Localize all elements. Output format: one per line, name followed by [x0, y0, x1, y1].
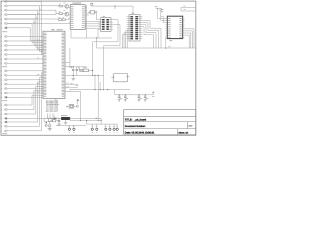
wire net D1 pin to MCU — [7, 95, 43, 105]
+5V label ladder — [152, 95, 154, 98]
wire comb drop 1 — [46, 113, 48, 118]
wire SV2 loop 2 — [104, 24, 121, 89]
wire IC3 left down to bus — [165, 37, 167, 48]
resistor R2 label — [59, 10, 60, 13]
wire net to frame 2 — [181, 10, 195, 12]
bridge B1 — [49, 119, 53, 122]
IC3 body — [167, 16, 182, 38]
wire SV2 loop 1 — [93, 20, 119, 76]
voltage regulator IC4 body — [61, 117, 70, 120]
left connector pin 20 — [4, 92, 5, 94]
left connector pin 7 label — [1, 27, 2, 30]
pad S1 out — [77, 105, 79, 107]
MCU IC2 internal pin names right column — [62, 32, 65, 35]
wire jog — [55, 13, 57, 16]
capacitor C4 — [124, 95, 126, 96]
left connector pin 1 — [4, 1, 5, 3]
junction C6 — [145, 94, 146, 95]
left connector pin 17 label — [1, 79, 2, 82]
header SV2 outline — [101, 18, 112, 32]
left connector pin 25 label — [1, 117, 2, 120]
wire net D4 pin to MCU — [7, 82, 43, 122]
wires MCU bottom pin comb — [46, 100, 48, 110]
junction bus IC3 — [165, 47, 166, 48]
MCU IC2 refdes — [52, 29, 55, 30]
left connector pin 14 — [4, 63, 5, 65]
net labels on comb — [46, 101, 48, 104]
wire net B7 pin to MCU — [7, 62, 43, 64]
left connector pin 10 label — [1, 44, 2, 47]
wire K1 right pin — [128, 76, 130, 78]
wire fuse in — [50, 120, 53, 122]
left connector pin 12 — [4, 54, 5, 56]
left connector pin 2 — [4, 5, 5, 7]
header SV2 pin stubs — [99, 19, 103, 21]
left connector pin 11 label — [1, 49, 2, 52]
MCU IC2 left pin stubs — [42, 53, 43, 55]
left connector pin 15 — [4, 70, 5, 72]
junction cluster a — [53, 118, 54, 119]
wire net C4 pin to MCU — [7, 83, 43, 85]
MCU IC2 value — [57, 28, 63, 31]
wire IC1 bottom to bus — [70, 30, 72, 39]
left connector pin 13 label — [1, 58, 2, 61]
junction R5 loop1 — [92, 70, 93, 71]
wire bridge to D1 — [52, 117, 53, 119]
junction node — [71, 66, 72, 67]
wire SV1 right loop 2 — [142, 25, 156, 48]
left connector pin 22 label — [1, 104, 2, 107]
wire net A1 pin to MCU — [7, 2, 43, 54]
resistor R5 — [83, 69, 88, 72]
wire pad stub — [91, 5, 93, 8]
supply symbol +5V at ladder — [151, 94, 153, 96]
header SV1 label — [132, 12, 135, 15]
wire drop x86.7 — [86, 121, 88, 125]
junction x98 rail — [98, 120, 99, 121]
pad P2 label — [77, 102, 78, 105]
left connector pin 3 — [4, 9, 5, 11]
junction D1 in — [50, 118, 51, 119]
wire net B4 pin to MCU — [7, 49, 43, 51]
wire vertical from bus to MISO — [69, 48, 71, 67]
wire net to cluster — [7, 14, 56, 16]
junction rail y89.6 c — [94, 89, 95, 90]
ground symbol below C1 C2 — [71, 78, 75, 80]
left connector pin 1 label — [1, 0, 2, 3]
wire cluster left drop — [43, 118, 45, 121]
left connector pin 9 — [4, 40, 5, 42]
wire net C7 pin to MCU — [7, 96, 43, 98]
junction MISO — [69, 66, 70, 67]
title block row line 2 — [124, 121, 196, 123]
left connector pin 6 label — [1, 22, 2, 25]
junction rail y89.6 a — [100, 89, 101, 90]
wire IC1 right pin 0 — [85, 6, 86, 8]
wire net C5 pin to MCU — [7, 88, 43, 90]
capacitor C7 — [58, 120, 60, 122]
wire into IC1 — [69, 21, 72, 23]
left connector pin 3 label — [1, 9, 2, 12]
ground below C3 — [118, 99, 121, 101]
net label RXD — [184, 8, 186, 11]
left connector pin 14 label — [1, 62, 2, 65]
connector K3 label — [2, 99, 7, 102]
wire T1 to IC1 — [68, 6, 70, 8]
wire fuse out — [56, 120, 59, 122]
net label TXD — [184, 5, 186, 8]
left connector pin 11 — [4, 49, 5, 51]
crystal Q1 label — [96, 10, 98, 13]
wire IC1 right pin 2 — [85, 14, 86, 16]
fuse F1 — [53, 120, 56, 122]
bus wire VCC ladder — [115, 94, 152, 96]
crystal Q1 — [91, 10, 95, 14]
transistor T2 — [65, 12, 69, 16]
wire vertical x98 — [97, 75, 99, 120]
svg-text:Sheet: 1/1: Sheet: 1/1 — [178, 132, 189, 135]
resistor R3 label — [59, 16, 60, 19]
junction rail y89.6 b — [107, 89, 108, 90]
wire IC3 right loop 1 — [184, 31, 192, 48]
resistor R1 — [59, 5, 63, 7]
connector K1 label — [2, 30, 7, 33]
IC3 upper label 2 — [161, 10, 163, 13]
wire net C3 pin to MCU — [7, 79, 43, 81]
left connector pin 24 label — [1, 113, 2, 116]
title block REV divider — [187, 122, 189, 129]
bottom pad pin numbers — [69, 131, 70, 134]
wire net C2 pin to MCU — [7, 74, 43, 76]
left connector pin 7 — [4, 27, 5, 29]
left connector pin 21 label — [1, 96, 2, 99]
left connector pin 13 — [4, 58, 5, 60]
button S1 body — [69, 105, 74, 109]
svg-text:TITLE:: TITLE: — [125, 119, 133, 122]
wire T2 to IC1 — [68, 14, 70, 16]
junction loop1 rail — [92, 75, 93, 76]
resistor R1 label — [59, 3, 60, 6]
wire SV1 left loop 2 — [124, 33, 127, 48]
junction bus y38 — [96, 37, 97, 38]
title block sheet divider — [177, 129, 179, 135]
wire net A2 pin to MCU — [7, 6, 43, 52]
wire R5 feed — [78, 67, 80, 71]
wire R4 to IC1 — [65, 18, 70, 19]
ground below C4 — [124, 99, 127, 101]
junction x86.7 — [86, 120, 87, 121]
wire pin to R1 — [7, 5, 59, 7]
diode D1 — [53, 117, 57, 119]
power flag VDD — [159, 9, 162, 11]
title block row line 3 — [124, 128, 196, 130]
wire IC3 right loop 2 — [184, 33, 190, 48]
net label — [67, 82, 69, 85]
wire into bridge — [44, 117, 49, 119]
title block row line 1 — [124, 115, 196, 117]
net labels below comb — [46, 110, 49, 113]
wire crystal left — [88, 11, 90, 13]
wire net D6 pin to MCU — [7, 73, 43, 131]
junction cluster b — [55, 118, 56, 119]
wire ladder feed — [114, 90, 116, 95]
header SV2 label — [103, 15, 106, 18]
pad P4 — [45, 124, 47, 126]
diode D1 label — [54, 115, 55, 118]
left connector pin 19 label — [1, 87, 2, 90]
header SV1 outline — [129, 15, 140, 41]
wire rail down to SV1 — [132, 6, 134, 15]
wire net to frame 1 — [181, 7, 195, 9]
junction x98 rail — [98, 75, 99, 76]
wire pin to R2 — [7, 10, 59, 14]
IC1 body — [70, 5, 85, 30]
left connector pin 23 label — [1, 108, 2, 111]
relay K1 pin notches — [113, 76, 114, 78]
supply symbol above S1 — [77, 100, 79, 103]
relay K1 outline — [113, 74, 128, 82]
wire into SV2 pin1 — [97, 19, 101, 21]
wire IC1 to SV2 pin 1 — [85, 23, 100, 25]
connector K2 label — [2, 65, 7, 68]
button S1 label — [66, 105, 68, 108]
wire jog up — [69, 22, 71, 23]
IC3 refdes below — [170, 39, 173, 42]
left connector pin 20 label — [1, 92, 2, 95]
net label — [33, 21, 35, 24]
svg-text:_ub_board: _ub_board — [133, 119, 147, 122]
wire net A7 pin to MCU — [7, 28, 43, 41]
wire R5 out — [88, 69, 92, 71]
wire SV1 left loop 1 — [126, 31, 127, 48]
header SV2 dark pads — [102, 19, 105, 21]
left connector pin 25 — [4, 118, 5, 120]
wire MCU right pin upper — [65, 61, 70, 63]
capacitor C3 — [118, 95, 120, 96]
bottom pads group 3 — [105, 124, 107, 128]
wire net B1 pin to MCU — [7, 36, 43, 38]
wire SV2 left down — [97, 29, 100, 38]
net labels group B — [37, 39, 40, 42]
pad P3 — [49, 125, 51, 127]
left connector pin 4 — [4, 14, 5, 16]
left connector pin 23 — [4, 109, 5, 111]
junction C1 bottom — [73, 75, 74, 76]
wire +5V to IC3 — [161, 14, 166, 20]
wire IC1 to SV2 pin 3 — [85, 27, 100, 29]
wire rail y120.5 — [70, 120, 101, 122]
wire comb drop 3 — [52, 113, 54, 120]
ground below C6 — [144, 99, 147, 101]
wire VIN to bridge — [7, 117, 48, 119]
left connector pin 5 — [4, 18, 5, 20]
wire SV1 left loop 3 — [122, 35, 126, 48]
junction C5 — [138, 94, 139, 95]
wire SV1 right loop 1 — [142, 23, 158, 48]
left connector pin 6 — [4, 23, 5, 25]
transistor T1 label — [64, 1, 66, 4]
wire MCU right pin down to rail — [65, 91, 81, 120]
wire SV1 right loop 0 — [142, 21, 161, 48]
junction top rail — [114, 6, 115, 7]
wire regulator gnd — [65, 120, 67, 123]
wire comb drop 2 — [49, 113, 51, 118]
net label — [67, 85, 69, 88]
junction x101 — [101, 120, 102, 121]
IC1 refdes — [72, 2, 81, 5]
button S1 cap — [70, 105, 73, 108]
wire vertical x100 — [99, 82, 101, 90]
wire D1 to regulator — [57, 117, 61, 119]
left connector pin 4 label — [1, 13, 2, 16]
left connector pin 27 — [4, 126, 5, 128]
left connector pin 26 — [4, 121, 5, 123]
wire rail y124.1 — [87, 123, 118, 125]
bridge B1 label — [47, 116, 48, 119]
ground symbol regulator — [64, 122, 68, 124]
transistor T2 label — [64, 9, 66, 12]
net labels group C — [37, 73, 40, 76]
MCU bottom label — [55, 98, 57, 101]
comb end arrows — [45, 110, 48, 111]
wire net B2 pin to MCU — [7, 40, 43, 42]
wire net D2 pin to MCU — [7, 91, 43, 110]
wire VCC to IC3 — [158, 13, 166, 18]
bottom pads group 2 — [91, 124, 93, 128]
junction C7 top — [58, 118, 59, 119]
wire MCU right pin 1 — [65, 87, 78, 89]
wire SV1 left loop 0 — [126, 29, 129, 48]
wire MCU MISO — [65, 66, 87, 68]
left connector pin 28 label — [1, 130, 2, 133]
connector K4 label — [2, 132, 7, 135]
junction x80.5 rail — [80, 120, 81, 121]
wire IC3 right loop 0 — [184, 29, 194, 48]
capacitor C1 — [72, 68, 74, 70]
wire IC3 stub join — [165, 36, 167, 38]
wire vertical x95 — [94, 75, 96, 89]
wire R1 to T1 base — [63, 5, 65, 7]
wire regulator out rail — [70, 117, 101, 119]
net label — [35, 17, 37, 20]
wire top net rail — [92, 5, 133, 7]
left connector pin 16 label — [1, 74, 2, 77]
wire net A3 pin to MCU — [7, 10, 43, 49]
bus net label — [168, 45, 171, 48]
wire MCU right pin 0 — [65, 83, 78, 85]
capacitor C2 label — [78, 66, 79, 69]
wire rail y125.4 — [56, 124, 86, 126]
svg-text:Document Number:: Document Number: — [125, 125, 146, 128]
wire pin to R3 — [7, 18, 58, 20]
wire rail drop x101 — [100, 118, 102, 124]
bottom pads group 1 — [68, 125, 70, 128]
IC3 internal pin names — [168, 17, 170, 20]
wire net A6 pin to MCU — [7, 23, 43, 42]
junction x95 rail — [94, 75, 95, 76]
wire R3 to R4 — [61, 19, 64, 21]
title block frame — [124, 109, 196, 135]
capacitor C6 — [144, 95, 146, 96]
ground below C5 — [138, 99, 141, 101]
left connector pin 27 label — [1, 125, 2, 128]
wire stub to net — [161, 16, 163, 18]
left connector pin 9 label — [1, 40, 2, 43]
pad P1 — [90, 3, 93, 6]
wire cluster lower — [44, 121, 49, 123]
wire crystal to SV2 — [96, 12, 98, 20]
wire net B6 pin to MCU — [7, 58, 43, 60]
bus wire y89.6 — [70, 89, 130, 91]
rev label — [188, 125, 192, 126]
bus wire y48 left end — [97, 47, 101, 49]
bus wire y38 — [71, 37, 112, 39]
left connector pin 8 — [4, 36, 5, 38]
junction loop2 rail — [103, 89, 104, 90]
left connector pin 24 — [4, 113, 5, 115]
junction reg out — [96, 118, 97, 119]
wire pad to ground — [49, 127, 51, 129]
wire SV1 right loop 3 — [142, 27, 153, 48]
wire S1 out — [74, 105, 77, 107]
wire crystal right — [95, 11, 97, 13]
wire frame nets join — [180, 8, 182, 12]
resistor R5 label — [83, 66, 87, 69]
left connector pin 8 label — [1, 35, 2, 38]
wire rail end down — [69, 90, 71, 92]
ground symbol under C7 — [57, 123, 61, 125]
left connector pin 5 label — [1, 18, 2, 21]
svg-text:Date: 05.05.2009 13:36:31: Date: 05.05.2009 13:36:31 — [125, 132, 155, 135]
resistor R6 — [80, 69, 83, 71]
wire net to IC3 pin3 — [163, 17, 165, 23]
AGND label — [76, 84, 79, 87]
wire pin to IC1 lower pin — [7, 22, 69, 24]
left connector pin 18 label — [1, 83, 2, 86]
GND label — [71, 82, 73, 85]
wire R2 to T2 base — [63, 13, 65, 15]
resistor R4 label — [62, 16, 63, 19]
wire net C1 pin to MCU — [7, 70, 43, 72]
wire rail jog — [69, 118, 71, 120]
wire bus drop — [96, 38, 98, 48]
resistor R2 — [59, 13, 63, 15]
capacitor C2 — [76, 68, 78, 70]
left connector pin 12 label — [1, 53, 2, 56]
left connector pin 22 — [4, 104, 5, 106]
left connector pin 10 — [4, 45, 5, 47]
junction C1 top — [73, 66, 74, 67]
net label — [39, 8, 41, 11]
wire bridge to pad — [49, 121, 51, 124]
MCU IC2 internal pin names — [44, 32, 47, 35]
wire IC3 right loop 3 — [184, 35, 189, 48]
transistor T1 — [65, 4, 69, 8]
left connector pin 21 — [4, 97, 5, 99]
wire net B3 pin to MCU — [7, 45, 43, 47]
header SV1 dark pads — [130, 16, 133, 17]
left connector pin 2 label — [1, 5, 2, 8]
junction C3 — [119, 94, 120, 95]
wire net A5 pin to MCU — [7, 19, 43, 45]
left connector pin 19 — [4, 88, 5, 90]
resistor R4 — [62, 19, 65, 21]
header SV1 pin stubs — [127, 16, 131, 18]
+5V label — [160, 7, 162, 10]
left connector pin 15 label — [1, 70, 2, 73]
diode D3 — [45, 122, 47, 124]
wire to S1 — [66, 105, 69, 107]
